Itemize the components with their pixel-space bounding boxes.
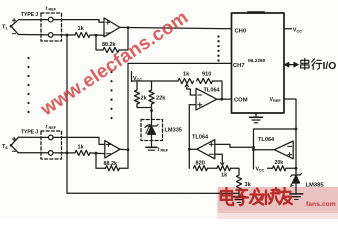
svg-text:COM: COM [234, 97, 248, 103]
label T8 polarity + [12, 137, 16, 141]
resistor 3k [236, 175, 241, 191]
banner char zi [236, 190, 249, 205]
wire U2 + input stub [189, 104, 196, 106]
node: LM385 junction [295, 167, 298, 170]
node: U3 output junction [188, 148, 191, 151]
op-amp U3 TL064 (left-facing) [197, 140, 215, 159]
wire pot to 3k [231, 168, 240, 175]
svg-text:ML2280: ML2280 [248, 58, 266, 63]
ground (3k / bottom rail) [233, 196, 246, 198]
wire U2 output to COM [217, 98, 232, 100]
svg-text:I/O: I/O [323, 61, 337, 72]
wire feedback to output [120, 150, 129, 168]
ground tREF under LM335 [151, 141, 153, 148]
svg-text:TL064: TL064 [192, 135, 209, 141]
op-amp U5 (TL064 section, T8 amplifier) [105, 141, 120, 158]
resistor 22k [151, 81, 153, 90]
serial I/O double arrow [285, 63, 299, 67]
thermocouple T8 junction [11, 137, 18, 153]
svg-text:20k: 20k [275, 160, 284, 166]
svg-text:REF: REF [49, 8, 57, 12]
wire U1 output to CH0 [120, 27, 232, 28]
wire U3 output [189, 148, 197, 150]
terminal circle top [48, 135, 53, 140]
svg-text:1k: 1k [221, 173, 228, 179]
label T1 polarity + [12, 19, 16, 23]
resistor 88.2k feedback (U1) [103, 47, 119, 52]
svg-text:2k: 2k [141, 96, 148, 102]
LM335 zener sensor [151, 120, 153, 127]
node ellipsis column (thermocouples T2..T7) [27, 57, 29, 59]
svg-text:t: t [158, 147, 160, 153]
op-amp U1 (TL064 section, T1 amplifier) [104, 18, 120, 37]
watermark banner background [218, 187, 338, 213]
banner char you [280, 188, 292, 204]
banner char shao [262, 188, 280, 204]
wire 1k to inverting input [90, 152, 105, 155]
wire VREF pin to reference [284, 99, 296, 173]
resistor 88.2k feedback (U5) [106, 166, 120, 171]
isothermal block (tREF) dashed box bottom [41, 131, 62, 159]
label 行 [312, 59, 322, 70]
svg-text:1k: 1k [183, 71, 190, 77]
svg-text:1k: 1k [78, 144, 85, 150]
node: U4 output [252, 148, 255, 151]
wire feedback down [96, 153, 106, 168]
node: VREF branch [295, 128, 298, 131]
wire 820 to pot 1k [208, 167, 218, 169]
svg-text:t: t [46, 125, 48, 131]
node: U1 output [127, 26, 130, 29]
potentiometer 1k (gain trim) [217, 166, 231, 171]
banner char dian [221, 188, 233, 205]
svg-text:88.2k: 88.2k [102, 42, 116, 48]
node: feedback tap bottom [95, 152, 98, 155]
pot wiper arrow [185, 84, 188, 89]
svg-text:REF: REF [49, 126, 57, 130]
wire U3 + input to VREF node [215, 144, 254, 147]
terminal circle bottom [48, 151, 53, 156]
svg-text:820: 820 [196, 160, 205, 166]
node: U2 output [220, 98, 223, 101]
node: left rail junction [66, 34, 69, 37]
wire T8 bottom lead [18, 152, 41, 154]
op-amp U2 TL064 (COM driver) [196, 88, 217, 110]
wire 1k to inverting input [90, 34, 104, 36]
resistor 1k (T1 input) [75, 32, 90, 37]
wire box to op-amp U1 + input [62, 20, 105, 23]
svg-text:LM385: LM385 [306, 183, 325, 189]
svg-text:T1: T1 [2, 25, 8, 31]
wire through box top [41, 19, 62, 21]
watermark diagonal www.elecfans.com [36, 7, 192, 121]
svg-text:CH7: CH7 [233, 63, 245, 69]
svg-text:CH0: CH0 [235, 28, 247, 34]
wire left common rail [66, 35, 68, 193]
svg-text:TYPE J: TYPE J [21, 130, 38, 136]
wire 2k/22k bottoms join [137, 104, 152, 108]
terminal circle bottom [48, 33, 53, 38]
svg-text:TYPE J: TYPE J [21, 12, 38, 18]
wire VCC horizontal to pot [132, 80, 179, 82]
svg-text:REF: REF [161, 149, 169, 153]
wire T1 top lead [18, 19, 41, 21]
resistor 1k (T8 input) [75, 150, 90, 155]
isothermal block (tREF) dashed box top [41, 13, 62, 41]
node ellipsis column (amplifier outputs) [110, 71, 112, 73]
ground (chip COM) [255, 113, 257, 117]
resistor 20k [273, 166, 287, 171]
wire bottom to node [62, 34, 76, 36]
thermocouple T1 junction [11, 20, 18, 35]
wire through box top [41, 136, 62, 138]
wire U3 - input to pot wiper [215, 154, 223, 160]
wire box to op-amp U5 + input [62, 137, 105, 144]
node: VREF tap [252, 146, 255, 149]
svg-text:fans.com: fans.com [306, 201, 336, 208]
wire 20k to LM385 node [286, 167, 296, 169]
svg-text:t: t [46, 6, 48, 12]
terminal circle top [48, 17, 53, 22]
svg-text:1k: 1k [78, 26, 85, 32]
svg-text:T8: T8 [2, 144, 8, 150]
ADC ML2280 [232, 13, 285, 113]
node: U5 output [127, 148, 130, 151]
wire U5 output riser to CH7 [120, 148, 128, 151]
resistor 910 (U2 feedback) [197, 78, 213, 83]
node: left rail junction bottom [66, 152, 69, 155]
wire feedback down [96, 35, 103, 50]
diode LM385 reference [295, 173, 297, 176]
banner char fa [250, 189, 263, 205]
label T8 polarity - [12, 150, 15, 152]
wire bottom to node [62, 152, 76, 154]
node: LM335 top junction [150, 109, 153, 112]
potentiometer 1k (offset trim) [178, 78, 194, 83]
wire T1 bottom lead [18, 34, 41, 36]
node ellipsis column (CH1..CH6) [217, 35, 219, 37]
label T1 polarity - [12, 33, 15, 35]
svg-text:88.2k: 88.2k [104, 161, 118, 167]
wire U4 output [254, 149, 275, 151]
wire bottom common rail [67, 192, 239, 194]
svg-text:910: 910 [202, 71, 211, 77]
svg-text:LM335: LM335 [165, 128, 182, 134]
label 串 (serial) [301, 59, 309, 70]
power VCC tick (cold-junction network) [131, 72, 133, 82]
wire through box bottom [41, 152, 62, 154]
power VCC wire (chip) [284, 28, 292, 30]
LM335 dashed box [141, 120, 163, 141]
svg-text:TL064: TL064 [204, 88, 221, 94]
resistor 2k [136, 81, 138, 90]
wire T8 top lead [18, 136, 41, 138]
wire VCC to 20k [268, 167, 273, 169]
svg-text:22k: 22k [156, 96, 166, 102]
wire U2 + input net down to U3 [188, 105, 190, 168]
svg-text:3k: 3k [245, 182, 252, 188]
wire VREF branch to U4 output [254, 129, 297, 169]
op-amp U4 TL064 (reference buffer, left-facing) [274, 141, 293, 159]
wire 910 to U2 output [213, 81, 223, 99]
resistor 820 [194, 166, 208, 171]
ground (LM385) [290, 193, 303, 195]
svg-text:TL064: TL064 [258, 137, 275, 143]
wire through box bottom [41, 34, 62, 36]
node: feedback tap [95, 34, 98, 37]
wire feedback to output [119, 28, 128, 50]
